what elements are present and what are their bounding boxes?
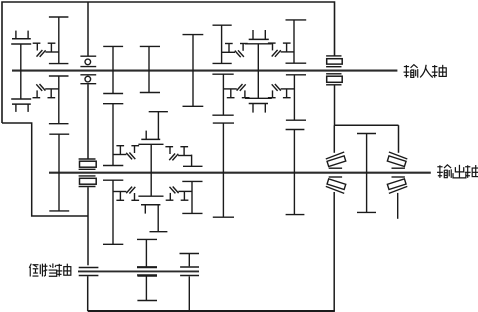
ball bearing on input shaft x88 (80, 55, 96, 57)
central synchronizer gear x258 (245, 44, 272, 99)
label reverse shaft 倒挡轴 (29, 264, 42, 277)
synchronizer engagement output upper right (165, 147, 191, 161)
output pinion x366 (357, 134, 376, 213)
reverse idler bushing bars x146 (137, 266, 157, 268)
reverse idler gear lower x146 (137, 276, 157, 301)
sleeve upper x258 (249, 30, 269, 39)
bushing reverse shaft x88 (79, 267, 99, 269)
tapered bearing output right upper (389, 152, 407, 159)
bearing support wall x=88 (87, 2, 89, 56)
reverse gear bushing bars x189 (180, 266, 199, 268)
tapered bearing output right lower (392, 176, 405, 178)
synchronizer engagement upper x237 (222, 44, 248, 58)
clutch disc gear on input shaft (11, 44, 31, 99)
clutch sleeve upper (12, 31, 31, 39)
driven gear below input shaft x59 (49, 76, 69, 124)
roller bearing input shaft right x334 (326, 55, 341, 57)
first-second wheel below output x113 (103, 180, 123, 244)
synchronizer engagement output lower left (113, 187, 139, 201)
synchronizer engagement upper left (input) (33, 43, 59, 57)
synchronizer engagement output lower right (166, 187, 192, 201)
housing left step (2, 123, 88, 216)
label output shaft 输出轴 (437, 165, 451, 178)
synchronizer engagement output upper left (113, 146, 139, 160)
reverse stub gear above sleeve x158 (157, 112, 159, 140)
gear on output x294 (286, 130, 305, 215)
third gear stub above output x191 (191, 155, 193, 167)
sleeve upper output x151 (141, 138, 160, 140)
housing right wall segments (334, 85, 336, 125)
gear on output shaft x223 (213, 123, 234, 217)
reverse idler shaft (78, 270, 199, 272)
gear below input shaft x223 (212, 74, 233, 115)
housing bottom (88, 310, 335, 312)
web line to output bearing (334, 124, 399, 126)
third-fourth gear on input x149 (140, 46, 160, 92)
reverse gear x189 upper (188, 254, 190, 267)
tapered bearing output left upper (326, 152, 344, 159)
reverse gear support to housing bottom (188, 276, 190, 311)
clutch sleeve lower (12, 104, 31, 112)
housing outline (2, 2, 335, 123)
central gear on output x151 (138, 144, 163, 196)
gear x193 input (183, 35, 204, 107)
tapered bearing output left lower (329, 176, 342, 178)
second gear wheel middle x113 (103, 104, 123, 166)
roller bearing output shaft x88 (79, 158, 96, 160)
gear below output x192 (182, 181, 202, 213)
synchronizer engagement upper x280 (268, 43, 294, 57)
synchronizer engagement lower x237 (223, 84, 249, 98)
input constant gear upper (49, 17, 69, 64)
output shaft (49, 172, 431, 174)
pinion shaft stub below right bearing (397, 193, 399, 219)
gear upper x294 (286, 20, 307, 63)
fifth gear upper x221 (213, 25, 232, 63)
input shaft (12, 70, 397, 72)
synchronizer engagement lower x280 (268, 84, 294, 98)
reverse idler gear upper x146 (137, 239, 157, 266)
gear below input x294 (286, 75, 306, 120)
reverse drive gear on sleeve x158 (157, 205, 159, 232)
label input shaft 输入轴 (404, 65, 418, 78)
synchronizer engagement lower left (input) (33, 84, 59, 98)
sleeve lower output x151 (141, 204, 160, 206)
first speed driven gear on output shaft x59 (49, 134, 69, 211)
sleeve lower x258 (249, 104, 268, 113)
second gear pair upper x113 (103, 46, 123, 93)
